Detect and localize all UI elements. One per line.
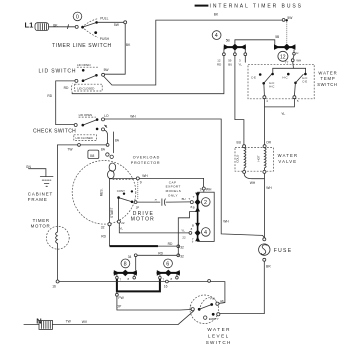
svg-text:32: 32: [180, 245, 184, 249]
svg-text:OP: OP: [117, 305, 123, 309]
svg-text:B: B: [193, 205, 195, 209]
svg-text:YL: YL: [281, 112, 285, 116]
svg-text:HOT: HOT: [257, 155, 261, 161]
svg-text:LID CLOSED: LID CLOSED: [77, 86, 94, 90]
svg-text:CONT: CONT: [117, 189, 125, 193]
svg-text:34: 34: [128, 255, 132, 259]
svg-text:PW: PW: [118, 296, 124, 300]
svg-text:INTERNAL TIMER BUSS: INTERNAL TIMER BUSS: [210, 4, 303, 10]
svg-text:22: 22: [121, 221, 125, 225]
svg-text:MOTOR: MOTOR: [31, 223, 51, 228]
svg-text:BU: BU: [237, 141, 242, 145]
svg-text:T: T: [193, 195, 195, 199]
svg-text:2: 2: [204, 200, 207, 206]
svg-text:FUSE: FUSE: [274, 248, 293, 254]
svg-text:TIMER: TIMER: [33, 218, 50, 223]
svg-text:WATER: WATER: [318, 70, 337, 75]
svg-text:22: 22: [182, 236, 186, 240]
svg-text:WH: WH: [223, 219, 229, 223]
svg-text:WH: WH: [250, 181, 256, 185]
svg-text:TT: TT: [285, 61, 289, 65]
svg-text:YL: YL: [238, 62, 242, 66]
svg-text:WATER: WATER: [207, 327, 231, 332]
svg-text:RD: RD: [217, 62, 221, 66]
svg-text:PULL: PULL: [100, 16, 108, 20]
svg-text:8: 8: [124, 262, 127, 268]
svg-text:6: 6: [166, 262, 169, 268]
svg-text:2P: 2P: [136, 206, 140, 210]
svg-text:H: H: [296, 51, 298, 55]
svg-text:OVERLOAD: OVERLOAD: [133, 156, 160, 160]
svg-text:PROTECTOR: PROTECTOR: [131, 161, 160, 165]
svg-text:VALVE: VALVE: [278, 159, 297, 164]
svg-text:LID OPEN: LID OPEN: [79, 113, 93, 117]
svg-text:08: 08: [90, 153, 95, 158]
svg-text:C-E: C-E: [251, 76, 256, 80]
svg-text:WH: WH: [130, 115, 136, 119]
svg-text:RD: RD: [47, 94, 52, 98]
svg-text:RD: RD: [158, 251, 163, 255]
svg-text:H8: H8: [220, 299, 224, 303]
svg-text:PUSH: PUSH: [100, 37, 110, 41]
svg-text:32: 32: [180, 254, 184, 258]
svg-text:CHECK SWITCH: CHECK SWITCH: [33, 129, 76, 135]
svg-text:TEMP: TEMP: [320, 76, 335, 81]
svg-text:COLD: COLD: [236, 155, 240, 163]
svg-text:BR: BR: [266, 265, 271, 269]
svg-text:ONLY: ONLY: [168, 193, 178, 197]
svg-text:OR: OR: [266, 141, 272, 145]
svg-text:SWITCH: SWITCH: [317, 82, 337, 87]
svg-text:RD: RD: [101, 235, 106, 239]
svg-text:L1: L1: [25, 21, 35, 30]
svg-text:16: 16: [164, 285, 168, 289]
svg-text:WATER: WATER: [278, 153, 299, 158]
svg-text:WV: WV: [82, 320, 88, 324]
svg-text:YL: YL: [181, 229, 185, 233]
svg-text:WH: WH: [296, 59, 301, 63]
svg-text:RD: RD: [168, 242, 173, 246]
svg-text:LEVEL: LEVEL: [208, 333, 230, 338]
svg-text:TIMER LINE SWITCH: TIMER LINE SWITCH: [52, 43, 112, 49]
svg-text:MOTOR: MOTOR: [131, 216, 155, 222]
svg-text:T: T: [188, 197, 190, 201]
svg-text:BU: BU: [182, 197, 186, 201]
svg-text:FRAME: FRAME: [28, 197, 48, 202]
svg-text:SWITCH: SWITCH: [206, 340, 232, 345]
svg-text:9: 9: [140, 181, 142, 185]
svg-text:LO: LO: [104, 114, 109, 118]
svg-text:C-E: C-E: [302, 80, 307, 84]
svg-text:WH: WH: [142, 174, 148, 178]
svg-text:B: B: [192, 223, 194, 227]
svg-text:RES.: RES.: [99, 188, 103, 196]
svg-text:LID SWITCH: LID SWITCH: [39, 68, 77, 74]
svg-text:START: START: [110, 207, 114, 218]
svg-text:H-C: H-C: [269, 85, 274, 89]
svg-text:12: 12: [280, 54, 286, 60]
svg-text:5W: 5W: [287, 16, 293, 20]
svg-text:WH: WH: [206, 188, 212, 192]
svg-text:0: 0: [76, 14, 79, 20]
svg-text:WH: WH: [266, 186, 272, 190]
svg-text:LID CLOSED: LID CLOSED: [76, 136, 93, 140]
svg-text:5W: 5W: [104, 68, 110, 72]
svg-text:4: 4: [215, 33, 218, 39]
svg-text:LID OPEN: LID OPEN: [77, 63, 91, 67]
svg-text:4: 4: [204, 230, 207, 236]
svg-text:GN: GN: [26, 165, 32, 169]
svg-text:BU: BU: [228, 62, 232, 66]
svg-text:H-C: H-C: [282, 76, 287, 80]
svg-text:TW: TW: [67, 148, 73, 152]
svg-text:CABINET: CABINET: [28, 191, 53, 196]
svg-text:T: T: [192, 237, 194, 241]
svg-text:YL: YL: [120, 227, 124, 231]
svg-text:32: 32: [101, 226, 105, 230]
svg-text:FUL: FUL: [210, 297, 216, 301]
svg-text:5W: 5W: [114, 23, 120, 27]
svg-text:EMPTY: EMPTY: [209, 317, 219, 321]
svg-text:16: 16: [52, 285, 56, 289]
svg-text:TW: TW: [66, 320, 72, 324]
svg-text:9: 9: [200, 188, 202, 192]
svg-text:RD: RD: [64, 86, 69, 90]
